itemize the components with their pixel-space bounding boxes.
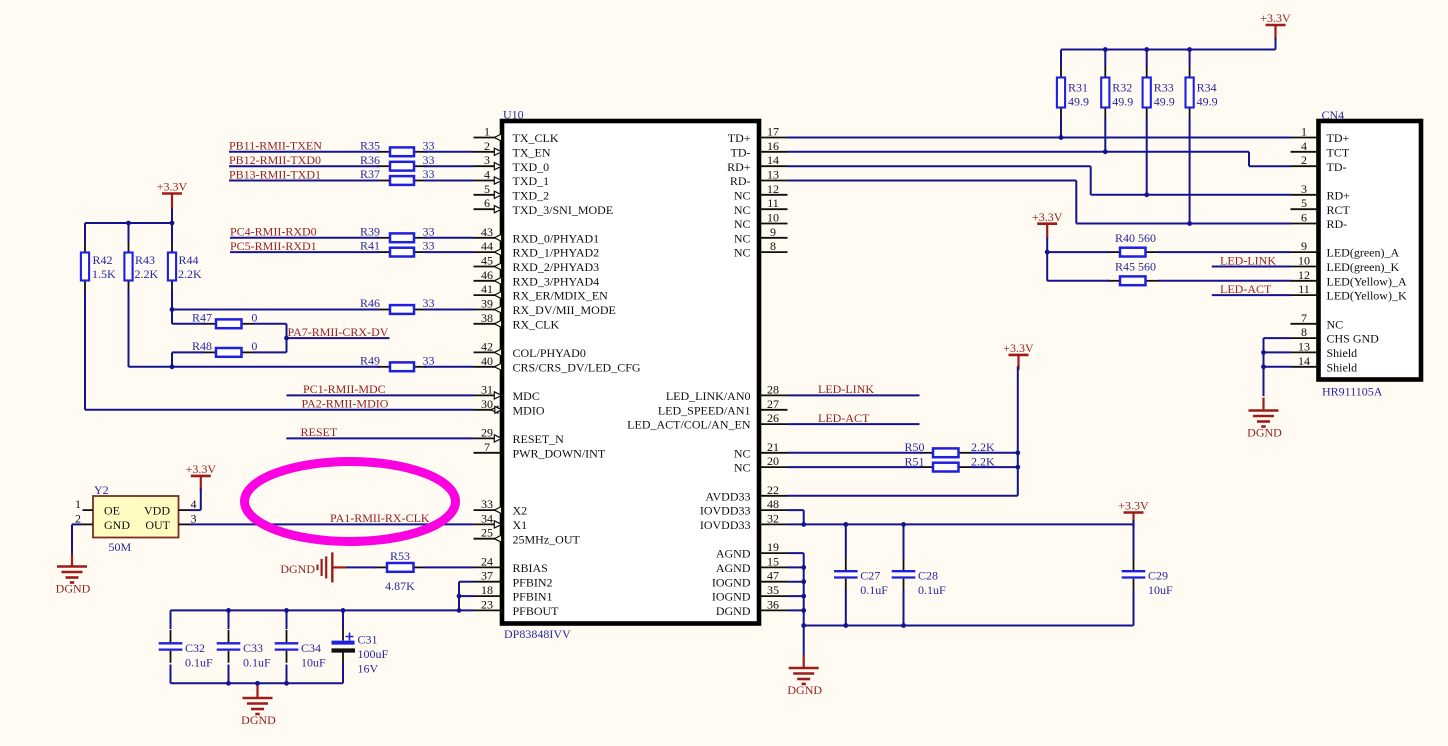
svg-text:7: 7 [484, 440, 490, 454]
svg-text:COL/PHYAD0: COL/PHYAD0 [513, 346, 586, 360]
wire DGND to R53 [346, 566, 377, 568]
U10 pin 22 AVDD33 [705, 483, 787, 504]
svg-text:1.5K: 1.5K [92, 267, 116, 281]
wire C32 top wire [170, 610, 172, 629]
resistor R48 [203, 348, 255, 357]
svg-text:33: 33 [423, 296, 435, 310]
svg-text:0: 0 [251, 339, 257, 353]
resistor R32 [1101, 67, 1109, 119]
ground DGND CN4 shield [1247, 398, 1282, 440]
svg-text:16V: 16V [358, 662, 379, 676]
svg-text:42: 42 [481, 339, 493, 353]
svg-text:+3.3V: +3.3V [186, 462, 217, 476]
wire IOVDD33 +3.3V rail [788, 523, 1134, 525]
ground DGND rotated at R53 RBIAS [280, 552, 346, 582]
wire pin 15 stub wire [788, 566, 804, 568]
svg-text:TD-: TD- [1327, 160, 1347, 174]
CN4 pin 11 LED(Yellow)_K [1291, 282, 1407, 303]
wire CHS GND wire [1264, 337, 1291, 339]
svg-text:LED-ACT: LED-ACT [818, 411, 870, 425]
wire +3.3V rail to pullups [85, 222, 172, 224]
oscillator Y2 body 50M [93, 496, 179, 538]
wire +3.3V stem left [171, 208, 173, 223]
svg-text:6: 6 [1301, 211, 1307, 225]
svg-text:R40 560: R40 560 [1115, 231, 1156, 245]
svg-text:2.2K: 2.2K [178, 267, 202, 281]
resistor R41 [377, 248, 427, 257]
U10 pin 39 RX_DV/MII_MODE [474, 297, 616, 318]
svg-text:18: 18 [481, 583, 493, 597]
svg-text:LED(green)_K: LED(green)_K [1327, 260, 1400, 274]
resistor R36 [377, 162, 427, 171]
svg-text:NC: NC [734, 246, 751, 260]
svg-text:23: 23 [481, 597, 493, 611]
wire RD- net U10 pin13 to CN4 pin6 [788, 181, 1291, 224]
ground DGND right rail [787, 655, 822, 697]
CN4 pin 14 Shield [1291, 354, 1358, 375]
svg-text:45: 45 [481, 254, 493, 268]
svg-text:48: 48 [767, 497, 779, 511]
svg-text:43: 43 [481, 225, 493, 239]
U10 pin 43 RXD_0/PHYAD1 [474, 225, 600, 246]
svg-text:OUT: OUT [145, 518, 170, 532]
svg-text:3: 3 [1301, 182, 1307, 196]
svg-text:R44: R44 [179, 253, 199, 267]
svg-text:C32: C32 [185, 641, 205, 655]
svg-text:RESET_N: RESET_N [513, 432, 565, 446]
wire pin 37 to vertical [459, 581, 474, 583]
U10 pin 15 AGND [716, 554, 788, 575]
wire +3.3V stem C29 [1133, 520, 1135, 524]
wire C31 bottom wire [342, 665, 344, 684]
R53 labels [385, 549, 415, 593]
wire R44 bottom to R46/R47 [171, 290, 173, 324]
U10 pin 41 RX_ER/MDIX_EN [474, 282, 609, 303]
svg-text:2: 2 [484, 139, 490, 153]
svg-text:RXD_1/PHYAD2: RXD_1/PHYAD2 [513, 246, 600, 260]
svg-text:0.1uF: 0.1uF [185, 655, 213, 669]
svg-text:37: 37 [481, 569, 493, 583]
wire R53 to U10 RBIAS pin 24 [425, 566, 474, 568]
svg-text:+3.3V: +3.3V [1260, 11, 1291, 25]
wire C27 column top [845, 524, 847, 558]
svg-text:0.1uF: 0.1uF [918, 583, 946, 597]
svg-text:33: 33 [423, 153, 435, 167]
svg-text:12: 12 [767, 182, 779, 196]
capacitor C29 [1122, 558, 1173, 598]
R47 labels [192, 310, 257, 324]
R36 labels [360, 153, 435, 167]
capacitor C33 [217, 630, 271, 670]
R35 labels [360, 138, 435, 152]
svg-text:25MHz_OUT: 25MHz_OUT [513, 532, 581, 546]
wire R37 to U10 pin 4 [424, 180, 474, 182]
U10 pin 34 X1 [474, 511, 528, 532]
svg-text:CN4: CN4 [1322, 108, 1345, 122]
svg-text:RD-: RD- [730, 174, 751, 188]
wire TD- net U10 pin16 to CN4 pin2 [788, 152, 1291, 166]
wire pin 35 stub wire [788, 595, 804, 597]
svg-text:40: 40 [481, 354, 493, 368]
svg-text:PB13-RMII-TXD1: PB13-RMII-TXD1 [229, 167, 321, 181]
R44 labels [178, 253, 202, 281]
wire C29 column bottom [1133, 590, 1135, 626]
R31 labels [1068, 81, 1089, 109]
svg-text:NC: NC [734, 446, 751, 460]
svg-text:R39: R39 [360, 224, 380, 238]
wire C34 bottom wire [286, 665, 288, 684]
U10 pin 27 LED_SPEED/AN1 [658, 397, 788, 418]
ground DGND bottom caps [241, 698, 276, 727]
svg-text:OE: OE [104, 504, 120, 518]
svg-text:CRS/CRS_DV/LED_CFG: CRS/CRS_DV/LED_CFG [513, 360, 641, 374]
U10 pin 25 25MHz_OUT [474, 526, 581, 547]
wire RD+ net U10 pin14 to CN4 pin3 [788, 166, 1291, 195]
svg-text:RXD_3/PHYAD4: RXD_3/PHYAD4 [513, 274, 600, 288]
svg-text:R49: R49 [360, 353, 380, 367]
svg-text:0.1uF: 0.1uF [860, 583, 888, 597]
wire Y2 GND to DGND [72, 524, 83, 553]
svg-text:33: 33 [481, 497, 493, 511]
Y2 pin 2 GND [75, 511, 93, 525]
U10 pin 38 RX_CLK [474, 311, 560, 332]
svg-text:R34: R34 [1197, 81, 1217, 95]
wire pin 18 to vertical [459, 595, 474, 597]
U10 pin 13 RD- [730, 168, 788, 189]
U10 pin 35 IOGND [712, 583, 788, 604]
wire TD+ net U10 pin17 to CN4 pin1 [788, 137, 1291, 139]
svg-text:R37: R37 [360, 167, 380, 181]
svg-text:DGND: DGND [280, 562, 315, 576]
wire C32 bottom wire [170, 665, 172, 684]
wire R47 row left [172, 323, 205, 325]
svg-text:DGND: DGND [1247, 426, 1282, 440]
svg-text:31: 31 [481, 382, 493, 396]
wire vertical 37-18-23 [458, 582, 460, 611]
svg-text:10uF: 10uF [1148, 583, 1173, 597]
svg-text:33: 33 [423, 353, 435, 367]
svg-text:C27: C27 [860, 569, 880, 583]
svg-text:LED(green)_A: LED(green)_A [1327, 246, 1400, 260]
resistor R33 [1143, 67, 1151, 119]
svg-text:R45 560: R45 560 [1115, 260, 1156, 274]
svg-text:PFBIN2: PFBIN2 [513, 575, 553, 589]
wire pin 48 jog [788, 510, 804, 524]
U10 pin 37 PFBIN2 [474, 569, 553, 590]
wire net LED-ACT to CN4 pin 11 [1212, 294, 1291, 296]
svg-text:LED-LINK: LED-LINK [1220, 253, 1276, 267]
CN4 pin 9 LED(green)_A [1291, 239, 1400, 260]
svg-text:AVDD33: AVDD33 [705, 489, 750, 503]
wire bottom caps ground rail [171, 682, 344, 684]
svg-text:8: 8 [770, 239, 776, 253]
svg-text:LED_LINK/AN0: LED_LINK/AN0 [666, 389, 751, 403]
power +3.3V R40 R45 [1032, 210, 1063, 239]
svg-text:14: 14 [767, 153, 779, 167]
power +3.3V top right [1260, 11, 1291, 40]
svg-text:IOGND: IOGND [712, 575, 751, 589]
wire R44 top lead wire [171, 223, 173, 242]
R32 labels [1112, 81, 1133, 109]
svg-text:PC4-RMII-RXD0: PC4-RMII-RXD0 [230, 225, 317, 239]
svg-text:39: 39 [481, 297, 493, 311]
svg-text:41: 41 [481, 282, 493, 296]
power +3.3V R50 R51 [1003, 341, 1034, 370]
svg-text:C33: C33 [243, 641, 263, 655]
svg-text:LED(Yellow)_K: LED(Yellow)_K [1327, 289, 1407, 303]
svg-text:TD+: TD+ [728, 131, 751, 145]
resistor R50 [920, 448, 972, 457]
svg-text:NC: NC [734, 217, 751, 231]
svg-text:R35: R35 [360, 138, 380, 152]
svg-text:R48: R48 [192, 339, 212, 353]
svg-text:C31: C31 [358, 633, 378, 647]
CN4 pin 2 TD- [1291, 153, 1347, 174]
svg-text:0: 0 [251, 310, 257, 324]
U10 pin 19 AGND [716, 540, 788, 561]
svg-text:NC: NC [734, 461, 751, 475]
wire net PA2-RMII-MDIO to pin 30 [85, 409, 474, 411]
wire R36 to U10 pin 3 [424, 165, 474, 167]
svg-text:R42: R42 [93, 253, 113, 267]
resistor R39 [377, 233, 427, 242]
svg-text:PFBIN1: PFBIN1 [513, 590, 553, 604]
svg-text:CHS GND: CHS GND [1327, 332, 1380, 346]
R49 labels [360, 353, 435, 367]
svg-text:35: 35 [767, 583, 779, 597]
resistor R51 [920, 463, 972, 472]
wire right ground rail [804, 625, 1134, 627]
svg-text:TXD_0: TXD_0 [513, 160, 550, 174]
U10 pin 21 NC [734, 440, 788, 461]
svg-text:R33: R33 [1154, 81, 1174, 95]
resistor R34 [1186, 67, 1194, 119]
Y2 pin 4 VDD [179, 497, 197, 511]
svg-text:RXD_0/PHYAD1: RXD_0/PHYAD1 [513, 231, 600, 245]
svg-text:100uF: 100uF [358, 647, 389, 661]
svg-text:R43: R43 [135, 253, 155, 267]
resistor R37 [377, 176, 427, 185]
wire pin 36 stub wire [788, 609, 804, 611]
wire R31 column [1060, 50, 1062, 138]
wire R49 row [129, 366, 380, 368]
svg-text:MDC: MDC [513, 389, 540, 403]
R46 labels [360, 296, 435, 310]
wire net PA7-RMII-CRX-DV stub [287, 337, 390, 339]
svg-text:2.2K: 2.2K [135, 267, 159, 281]
svg-text:32: 32 [767, 511, 779, 525]
wire C33 bottom wire [228, 665, 230, 684]
wire R43 top lead wire [128, 223, 130, 242]
wire R35 to U10 pin 2 [424, 151, 474, 153]
CN4 pin 8 CHS GND [1291, 325, 1380, 346]
capacitor C28 [892, 558, 946, 598]
wire R45 to CN4 pin 12 [1158, 280, 1291, 282]
svg-text:NC: NC [1327, 317, 1344, 331]
svg-text:NC: NC [734, 231, 751, 245]
U10 pin 31 MDC [474, 382, 540, 403]
wire net PC5-RMII-RXD1 to R41 [230, 251, 380, 253]
resistor R42 [81, 242, 89, 292]
U10 pin 29 RESET_N [474, 425, 565, 446]
wire R41 to U10 pin 44 [424, 251, 474, 253]
svg-text:30: 30 [481, 397, 493, 411]
wire R46 row [172, 309, 380, 311]
wire net PC1-RMII-MDC to pin 31 [287, 394, 474, 396]
U10 pin 5 TXD_2 [474, 182, 550, 203]
svg-text:PB12-RMII-TXD0: PB12-RMII-TXD0 [229, 153, 321, 167]
svg-text:25: 25 [481, 526, 493, 540]
svg-text:LED_ACT/COL/AN_EN: LED_ACT/COL/AN_EN [627, 418, 751, 432]
U10 pin 10 NC [734, 211, 788, 232]
svg-text:IOGND: IOGND [712, 590, 751, 604]
svg-text:2: 2 [75, 511, 81, 525]
wire R40 row left [1047, 251, 1109, 253]
U10 pin 28 LED_LINK/AN0 [666, 382, 788, 403]
svg-text:38: 38 [481, 311, 493, 325]
U10 pin 36 DGND [716, 597, 788, 618]
U10 pin 42 COL/PHYAD0 [474, 339, 586, 360]
U10 pin 8 NC [734, 239, 788, 260]
svg-text:4: 4 [1301, 139, 1307, 153]
svg-text:10uF: 10uF [301, 655, 326, 669]
CN4 pin 3 RD+ [1291, 182, 1351, 203]
connector CN4 body HR911105A [1319, 121, 1422, 380]
svg-text:16: 16 [767, 139, 779, 153]
svg-text:RD+: RD+ [727, 160, 751, 174]
wire net LED-LINK to CN4 pin 10 [1212, 266, 1291, 268]
svg-text:PA2-RMII-MDIO: PA2-RMII-MDIO [302, 397, 389, 411]
svg-text:20: 20 [767, 454, 779, 468]
svg-text:44: 44 [481, 239, 493, 253]
svg-text:DGND: DGND [716, 604, 751, 618]
svg-text:+3.3V: +3.3V [1118, 499, 1149, 513]
U10 pin 2 TX_EN [474, 139, 551, 160]
svg-text:RD-: RD- [1327, 217, 1348, 231]
R39 labels [360, 224, 435, 238]
svg-text:49.9: 49.9 [1154, 95, 1175, 109]
CN4 pin 6 RD- [1291, 211, 1348, 232]
svg-text:TCT: TCT [1327, 145, 1350, 159]
ground stem bottom caps [256, 683, 258, 698]
svg-text:8: 8 [1301, 325, 1307, 339]
svg-text:R32: R32 [1112, 81, 1132, 95]
resistor R44 [168, 242, 176, 292]
svg-text:50M: 50M [109, 540, 132, 554]
svg-text:LED-LINK: LED-LINK [818, 382, 874, 396]
svg-text:U10: U10 [503, 108, 524, 122]
svg-text:IOVDD33: IOVDD33 [700, 504, 751, 518]
svg-text:49.9: 49.9 [1197, 95, 1218, 109]
U10 pin 11 NC [734, 196, 788, 217]
resistor R46 [377, 305, 427, 314]
svg-text:9: 9 [1301, 239, 1307, 253]
R50 labels [904, 440, 995, 454]
wire R48 to vertical [253, 351, 287, 353]
svg-text:RX_ER/MDIX_EN: RX_ER/MDIX_EN [513, 289, 609, 303]
wire R50 to +3.3V column [971, 452, 1018, 454]
svg-text:14: 14 [1298, 354, 1310, 368]
svg-text:21: 21 [767, 440, 779, 454]
svg-text:R36: R36 [360, 153, 380, 167]
U10 pin 9 NC [734, 225, 788, 246]
R37 labels [360, 167, 435, 181]
resistor R43 [124, 242, 132, 292]
resistor R49 [377, 362, 427, 371]
svg-text:13: 13 [767, 168, 779, 182]
U10 pin 1 TX_CLK [474, 125, 559, 146]
U10 pin 3 TXD_0 [474, 153, 550, 174]
resistor R35 [377, 147, 427, 156]
CN4 pin 7 NC [1291, 311, 1344, 332]
svg-text:5: 5 [1301, 196, 1307, 210]
wire net PB11-RMII-TXEN to R35 [229, 151, 380, 153]
U10 pin 33 X2 [474, 497, 528, 518]
svg-text:24: 24 [481, 554, 493, 568]
U10 pin 24 RBIAS [474, 554, 548, 575]
U10 pin 32 IOVDD33 [700, 511, 788, 532]
U10 pin 4 TXD_1 [474, 168, 550, 189]
svg-text:10: 10 [767, 211, 779, 225]
svg-text:26: 26 [767, 411, 779, 425]
wire net RESET to pin 29 [286, 437, 473, 439]
svg-text:49.9: 49.9 [1112, 95, 1133, 109]
capacitor C34 [275, 630, 326, 670]
wire C34 top wire [286, 610, 288, 629]
svg-text:AGND: AGND [716, 561, 751, 575]
CN4 pin 1 TD+ [1291, 125, 1350, 146]
wire ground column right [803, 553, 805, 655]
svg-text:PA1-RMII-RX-CLK: PA1-RMII-RX-CLK [330, 511, 430, 525]
U10 pin 45 RXD_2/PHYAD3 [474, 254, 600, 275]
wire R49 to U10 pin 40 [424, 366, 474, 368]
wire net LED-LINK from pin 28 [788, 394, 920, 396]
R42 labels [92, 253, 116, 281]
svg-text:13: 13 [1298, 339, 1310, 353]
wire net LED-ACT from pin 26 [788, 423, 920, 425]
svg-text:28: 28 [767, 382, 779, 396]
R51 labels [904, 455, 995, 469]
svg-text:1: 1 [75, 497, 81, 511]
wire bottom cap rail to pin 23 [171, 609, 474, 611]
svg-text:LED(Yellow)_A: LED(Yellow)_A [1327, 274, 1407, 288]
resistor R45 [1107, 276, 1159, 285]
svg-text:4.87K: 4.87K [385, 579, 415, 593]
power +3.3V C29 [1118, 499, 1149, 528]
U10 pin 47 IOGND [712, 569, 788, 590]
power +3.3V Y2 [186, 462, 217, 491]
wire vertical R47-R48 net PA7 [286, 324, 288, 353]
wire R45 row left [1047, 280, 1109, 282]
svg-text:33: 33 [423, 167, 435, 181]
svg-text:1: 1 [484, 125, 490, 139]
svg-text:C34: C34 [301, 641, 321, 655]
svg-text:29: 29 [481, 425, 493, 439]
wire pin 21 to R50 [788, 452, 923, 454]
svg-text:PB11-RMII-TXEN: PB11-RMII-TXEN [229, 139, 322, 153]
CN4 pin 10 LED(green)_K [1291, 254, 1400, 275]
wire C28 column top [903, 524, 905, 558]
wire R39 to U10 pin 43 [424, 237, 474, 239]
svg-text:TXD_1: TXD_1 [513, 174, 550, 188]
wire net PB13-RMII-TXD1 to R37 [229, 180, 380, 182]
svg-text:22: 22 [767, 483, 779, 497]
R41 labels [360, 239, 435, 253]
svg-text:RX_CLK: RX_CLK [513, 317, 560, 331]
svg-text:R47: R47 [192, 310, 212, 324]
svg-text:0.1uF: 0.1uF [243, 655, 271, 669]
U10 pin 7 PWR_DOWN/INT [474, 440, 606, 461]
